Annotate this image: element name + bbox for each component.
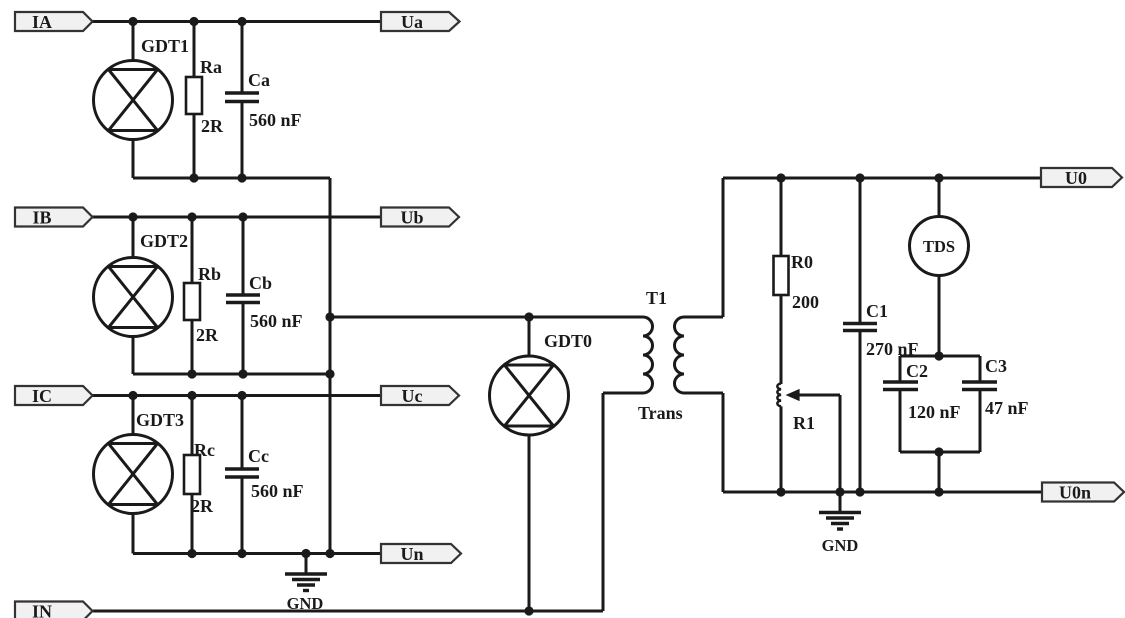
svg-text:GDT1: GDT1: [141, 36, 189, 56]
svg-text:Uc: Uc: [402, 386, 423, 406]
svg-text:T1: T1: [646, 288, 667, 308]
svg-text:C2: C2: [906, 361, 928, 381]
svg-text:R0: R0: [791, 252, 813, 272]
svg-text:GDT2: GDT2: [140, 231, 188, 251]
svg-text:Cc: Cc: [248, 446, 269, 466]
svg-text:Cb: Cb: [249, 273, 272, 293]
svg-text:Ca: Ca: [248, 70, 270, 90]
svg-text:GND: GND: [822, 536, 859, 555]
svg-text:270 nF: 270 nF: [866, 339, 919, 359]
svg-text:U0n: U0n: [1059, 483, 1091, 503]
svg-text:200: 200: [792, 292, 819, 312]
svg-text:Ua: Ua: [401, 12, 423, 32]
svg-text:IB: IB: [32, 208, 51, 228]
svg-text:GDT0: GDT0: [544, 331, 592, 351]
svg-text:Rc: Rc: [194, 440, 215, 460]
svg-text:R1: R1: [793, 413, 815, 433]
svg-text:IN: IN: [32, 602, 52, 618]
svg-text:Rb: Rb: [198, 264, 221, 284]
svg-text:C1: C1: [866, 301, 888, 321]
svg-text:560 nF: 560 nF: [249, 110, 302, 130]
svg-text:560 nF: 560 nF: [251, 481, 304, 501]
svg-text:560 nF: 560 nF: [250, 311, 303, 331]
svg-text:Ub: Ub: [400, 208, 423, 228]
svg-text:TDS: TDS: [923, 237, 955, 256]
svg-text:IC: IC: [32, 386, 52, 406]
svg-text:Ra: Ra: [200, 57, 222, 77]
svg-text:C3: C3: [985, 356, 1007, 376]
svg-text:Un: Un: [400, 544, 423, 564]
svg-text:2R: 2R: [201, 116, 224, 136]
svg-text:47 nF: 47 nF: [985, 398, 1029, 418]
svg-text:U0: U0: [1065, 168, 1087, 188]
svg-text:IA: IA: [32, 12, 52, 32]
svg-text:120 nF: 120 nF: [908, 402, 961, 422]
svg-text:GDT3: GDT3: [136, 410, 184, 430]
svg-text:2R: 2R: [196, 325, 219, 345]
svg-text:Trans: Trans: [638, 403, 683, 423]
svg-text:2R: 2R: [191, 496, 214, 516]
svg-text:GND: GND: [287, 594, 324, 613]
